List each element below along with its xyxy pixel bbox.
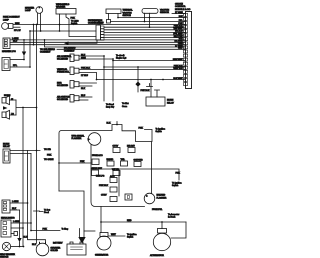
svg-text:CHOKE: CHOKE xyxy=(175,3,183,5)
svg-text:PNK: PNK xyxy=(176,173,181,175)
connector solenoid S3 xyxy=(70,81,79,89)
svg-text:FLASHER: FLASHER xyxy=(72,137,82,140)
svg-text:HEADLIGHTS: HEADLIGHTS xyxy=(1,216,15,219)
component SENSOR stadium box xyxy=(142,9,158,14)
splice arrow horns xyxy=(3,106,8,110)
wire vert x33.5 xyxy=(33,25,35,45)
svg-text:BLK: BLK xyxy=(107,122,112,124)
connector solenoid S4 xyxy=(70,95,79,103)
svg-text:FLASHER: FLASHER xyxy=(157,196,167,199)
generator circle xyxy=(97,236,111,250)
svg-text:PNK: PNK xyxy=(47,154,52,156)
connector bulkhead strip body xyxy=(186,12,192,89)
fuse box bottom edge xyxy=(91,145,145,207)
wire S4b xyxy=(79,99,88,101)
labels strip wires xyxy=(173,12,184,80)
svg-text:BLK: BLK xyxy=(179,16,184,18)
svg-text:To Ignition: To Ignition xyxy=(172,182,182,185)
svg-text:CONNECT: CONNECT xyxy=(40,52,51,54)
connector J4 xyxy=(1,220,11,237)
lamp PARK LAMP xyxy=(2,23,13,30)
svg-text:To Light: To Light xyxy=(71,20,79,23)
wire S4a BLU xyxy=(79,96,92,98)
wire washer switch xyxy=(11,246,24,248)
connector J3 xyxy=(2,200,10,213)
wire battery cable 2 xyxy=(79,229,81,238)
wire bus y27.2 xyxy=(104,26,185,28)
svg-text:MARKER: MARKER xyxy=(25,7,35,10)
svg-text:CONNECT: CONNECT xyxy=(64,50,75,52)
wire vert x19.5 J3b xyxy=(19,210,21,238)
wire bus y29.8 xyxy=(104,29,185,31)
svg-text:SOLENOID: SOLENOID xyxy=(57,99,68,101)
svg-text:STARTER: STARTER xyxy=(51,246,61,249)
wire bus y47 xyxy=(45,40,186,47)
svg-text:PNK: PNK xyxy=(139,128,144,130)
wire bus y35 xyxy=(104,34,185,36)
wire horn relay pin2 xyxy=(155,90,160,97)
svg-text:IGN LPS: IGN LPS xyxy=(96,176,105,178)
svg-text:Switch: Switch xyxy=(156,130,163,133)
wire diamond feed xyxy=(137,67,139,82)
wire J2a xyxy=(10,59,24,61)
svg-text:BLK: BLK xyxy=(32,244,37,246)
svg-text:EGR: EGR xyxy=(57,82,62,84)
svg-text:To Bat: To Bat xyxy=(44,209,50,212)
svg-text:PNK: PNK xyxy=(71,18,76,20)
wire J4a xyxy=(11,222,31,224)
wire bus y67 xyxy=(104,66,185,68)
wire into cable xyxy=(84,230,95,232)
svg-text:BLU: BLU xyxy=(24,236,29,238)
wire K2a xyxy=(10,150,40,152)
svg-text:CTSY: CTSY xyxy=(101,195,107,197)
wire horn bracket xyxy=(16,100,37,115)
svg-text:UPR SIGNAL: UPR SIGNAL xyxy=(72,134,86,137)
wire S3b BLK xyxy=(79,85,92,87)
svg-text:Engine Lgt: Engine Lgt xyxy=(116,57,126,60)
wire bus y49.3 xyxy=(57,48,185,50)
svg-text:GRN: GRN xyxy=(81,57,86,59)
svg-text:RELAY: RELAY xyxy=(3,145,10,148)
svg-text:PPL W: PPL W xyxy=(14,30,21,32)
connector solenoid S1 xyxy=(70,54,79,62)
component cap symbol xyxy=(147,84,153,87)
svg-text:Switch: Switch xyxy=(172,184,179,187)
svg-text:TO SAME: TO SAME xyxy=(44,158,54,161)
svg-text:PPL W: PPL W xyxy=(97,23,104,25)
svg-text:SENSOR: SENSOR xyxy=(160,12,169,14)
wire bus y13.6 xyxy=(172,13,185,15)
svg-text:WHT: WHT xyxy=(111,234,117,236)
svg-text:PNK BLK: PNK BLK xyxy=(81,68,90,70)
wire alt feed xyxy=(161,222,163,229)
svg-text:AIR SWITCH: AIR SWITCH xyxy=(57,95,70,98)
wire y79.5 to strip xyxy=(97,79,186,81)
battery xyxy=(67,242,86,255)
splice arrow x19.5 xyxy=(17,238,21,242)
wire vert x27.5 relay to starter xyxy=(28,151,46,244)
wire K2b xyxy=(10,153,31,155)
wire thermal sub to bus xyxy=(111,21,186,23)
svg-text:MARKER LPS: MARKER LPS xyxy=(2,50,16,53)
svg-text:WDO WASHER: WDO WASHER xyxy=(0,253,15,256)
svg-text:HORN: HORN xyxy=(3,143,10,145)
component WINDSHIELD WASHER xyxy=(56,9,76,15)
svg-text:To Head: To Head xyxy=(106,104,115,106)
wire marker pin1 xyxy=(37,13,39,24)
svg-text:L GRN: L GRN xyxy=(12,201,19,203)
wire BLK into box xyxy=(116,122,118,125)
svg-text:BLK: BLK xyxy=(81,88,86,90)
wire J2b xyxy=(10,66,30,68)
wire S3a xyxy=(79,82,97,84)
lamp MARKER LAMP xyxy=(36,7,43,14)
svg-text:MODULE & CO: MODULE & CO xyxy=(175,9,191,11)
svg-text:LT GRN: LT GRN xyxy=(175,12,183,14)
svg-text:To Ignition: To Ignition xyxy=(127,233,137,236)
svg-text:In Dash: In Dash xyxy=(168,217,176,219)
wire park PPL xyxy=(13,26,20,28)
wire inner bus y169 and exit to right xyxy=(91,169,179,180)
wire washer pin1 long (to fuse box corner) xyxy=(59,14,61,31)
wire bus y39.9 J1a xyxy=(10,39,185,41)
hazard flasher circle xyxy=(144,193,155,204)
wire bus y32.4 xyxy=(104,31,185,33)
wire bus y60.5 xyxy=(113,60,185,62)
svg-text:LT BLU: LT BLU xyxy=(81,75,88,77)
svg-text:STOP HAZ: STOP HAZ xyxy=(92,167,103,170)
svg-text:HORN: HORN xyxy=(167,100,174,102)
svg-text:RED: RED xyxy=(127,220,132,222)
svg-text:L GRN: L GRN xyxy=(13,221,20,223)
svg-text:FUSE ACC: FUSE ACC xyxy=(92,154,103,157)
connector bulkhead strip pins xyxy=(183,13,187,85)
svg-text:HAZARD: HAZARD xyxy=(157,194,166,197)
svg-text:TO BULKHEAD: TO BULKHEAD xyxy=(40,48,55,51)
svg-text:AIR CONTROL: AIR CONTROL xyxy=(57,55,72,58)
wire S1a BLU xyxy=(79,56,104,101)
svg-text:To Ammeter: To Ammeter xyxy=(168,213,180,216)
wire gen WHT xyxy=(108,235,125,237)
wire vert x24 J1a to J2a w/ arrow xyxy=(23,40,25,52)
svg-text:ALTERNATOR: ALTERNATOR xyxy=(150,254,164,257)
svg-text:BULKHEAD: BULKHEAD xyxy=(64,47,76,50)
alternator cap xyxy=(158,229,167,234)
wire battery cable xyxy=(59,191,84,237)
svg-text:VACUUM: VACUUM xyxy=(160,9,169,12)
svg-text:THERMAL: THERMAL xyxy=(123,9,134,12)
wire washer PNK bend xyxy=(66,14,96,37)
wire PNK into fusebox xyxy=(59,162,91,164)
svg-text:SOLENOID: SOLENOID xyxy=(57,59,68,61)
svg-text:TAN WHT: TAN WHT xyxy=(173,27,183,30)
horn LO xyxy=(2,110,10,119)
wire horn relay pin1 xyxy=(150,80,152,98)
svg-text:SOLND: SOLND xyxy=(51,250,59,252)
wire vert x23 horn to washer switch xyxy=(22,108,24,247)
wire red corner down xyxy=(171,222,186,238)
wire J4c xyxy=(11,233,14,235)
wire horn HI xyxy=(10,99,17,101)
svg-text:lamp Sw: lamp Sw xyxy=(106,107,115,109)
relay K2 xyxy=(3,149,10,163)
flasher circle xyxy=(88,133,101,146)
wire gen feed xyxy=(100,207,102,233)
wire S1b GRN xyxy=(79,59,113,101)
svg-text:RELAY: RELAY xyxy=(167,101,174,104)
svg-text:SOLENOID: SOLENOID xyxy=(57,85,68,87)
splice diamond xyxy=(135,82,140,87)
wire PNK to ignition xyxy=(145,130,153,142)
wire J3a xyxy=(10,202,28,204)
wire bus y42.3 J1b xyxy=(10,41,185,43)
wire thermal a xyxy=(108,14,110,20)
svg-text:PNK: PNK xyxy=(80,161,85,163)
connector J2 xyxy=(2,58,10,71)
generator cap xyxy=(100,233,108,237)
svg-text:BRN: BRN xyxy=(15,23,20,25)
wire RED main xyxy=(101,221,186,223)
svg-text:LAMP: LAMP xyxy=(25,9,31,12)
svg-text:TO F/B: TO F/B xyxy=(44,149,51,151)
wire bus y37.6 xyxy=(104,37,185,39)
wire bus y17.5 xyxy=(118,17,185,19)
wire S2b xyxy=(79,73,97,80)
svg-text:FUSE PNL: FUSE PNL xyxy=(152,209,163,211)
wire J3b xyxy=(10,209,20,211)
wire park BRN bus y24.5 xyxy=(13,24,185,26)
connector DISTRIBUTOR xyxy=(96,25,104,40)
splice arrow battery xyxy=(78,237,85,244)
splice arrow distributor ground xyxy=(64,41,69,45)
wire bus y31 from marker xyxy=(30,30,96,32)
wire horn LO xyxy=(10,114,17,116)
svg-text:VERTICAL: VERTICAL xyxy=(57,68,68,71)
wire vert x30 marker to J2b xyxy=(29,31,31,67)
svg-text:BLK: BLK xyxy=(12,208,17,210)
wire marker pin2 xyxy=(40,13,42,31)
wire sensor pin1 xyxy=(144,13,146,21)
svg-text:GRY: GRY xyxy=(178,48,183,50)
svg-text:BLU: BLU xyxy=(81,95,86,97)
wire inner x119 xyxy=(118,169,120,196)
wire sensor pin2 xyxy=(149,13,151,27)
svg-text:Conn: Conn xyxy=(122,106,128,108)
fuse spare xyxy=(125,194,132,200)
svg-text:CONTROL: CONTROL xyxy=(175,6,186,8)
svg-text:GENERATOR: GENERATOR xyxy=(95,254,109,257)
svg-text:BLU: BLU xyxy=(81,54,86,56)
starter solenoid circle xyxy=(36,243,49,256)
svg-text:BLU: BLU xyxy=(13,41,18,43)
svg-text:LAMP: LAMP xyxy=(3,18,9,21)
svg-text:PNK BLK: PNK BLK xyxy=(99,185,108,187)
svg-text:Switch: Switch xyxy=(71,22,78,25)
wire J4b xyxy=(11,227,23,229)
svg-text:SWITCH: SWITCH xyxy=(123,15,132,17)
svg-text:Switch: Switch xyxy=(127,236,134,239)
svg-text:PARK CONNECT: PARK CONNECT xyxy=(3,16,20,19)
svg-text:BATTERY: BATTERY xyxy=(53,241,63,244)
svg-text:To Dist: To Dist xyxy=(122,102,129,105)
wire S2a to strip y69.5 xyxy=(79,69,185,71)
wire vert x31 relay2 to eng wire xyxy=(31,154,60,231)
relay HORN RELAY xyxy=(146,97,165,106)
svg-text:To Ignition: To Ignition xyxy=(156,127,166,130)
component thermal sub box xyxy=(107,20,111,24)
connector solenoid S2 xyxy=(70,67,79,75)
svg-text:Feed: Feed xyxy=(44,212,50,214)
svg-text:PNK BLK: PNK BLK xyxy=(141,90,150,92)
svg-text:To check: To check xyxy=(116,55,125,57)
svg-text:PNK: PNK xyxy=(43,229,48,231)
svg-text:WASHER: WASHER xyxy=(56,6,66,9)
wire bus y44.7 J1c xyxy=(10,44,185,46)
wire distributor feed xyxy=(98,22,100,26)
svg-text:PURGE SOL: PURGE SOL xyxy=(57,72,70,74)
svg-text:VACUUM: VACUUM xyxy=(123,11,132,14)
fuse box outline xyxy=(59,125,152,194)
svg-text:To Eng: To Eng xyxy=(62,229,69,231)
horn HI xyxy=(2,96,10,105)
wire thermal b xyxy=(117,14,119,18)
switch washer circle xyxy=(2,242,10,250)
svg-text:PNK: PNK xyxy=(178,23,183,25)
component THERMAL SWITCH box xyxy=(106,9,121,14)
connector J1 marker lights xyxy=(3,38,10,49)
alternator circle xyxy=(153,233,170,250)
wire vert x36.5 bat to starter xyxy=(34,25,44,244)
